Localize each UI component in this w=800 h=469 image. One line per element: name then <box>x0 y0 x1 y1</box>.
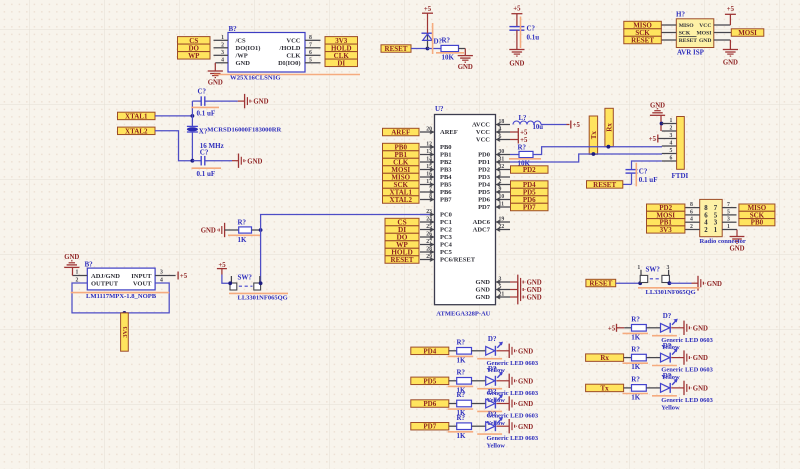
value 10u <box>533 124 544 131</box>
svg-text:32: 32 <box>499 164 505 170</box>
svg-text:ATMEGA328P-AU: ATMEGA328P-AU <box>436 310 490 317</box>
mcu pin 8 PB7 <box>420 194 452 204</box>
flash pin 3 /WP <box>214 50 229 56</box>
svg-text:VCC: VCC <box>699 23 711 29</box>
junction regulator output node <box>123 311 127 315</box>
svg-text:1K: 1K <box>631 394 641 402</box>
label Generic LED 0603 <box>661 337 713 344</box>
power +5 at mcu VCC pin6 <box>510 136 528 145</box>
port SCK (radio) <box>739 211 775 219</box>
svg-text:R?: R? <box>457 414 466 422</box>
power +5 above capacitor C? <box>511 6 522 14</box>
svg-text:PD5: PD5 <box>423 377 436 385</box>
svg-text:XTAL2: XTAL2 <box>390 196 413 204</box>
svg-text:1: 1 <box>714 227 718 234</box>
svg-text:Tx: Tx <box>590 131 598 140</box>
power +5 at switch SW? <box>217 262 230 284</box>
svg-text:+5: +5 <box>513 6 521 13</box>
led D? generic 0603 <box>486 417 510 431</box>
wire MISO to H? <box>661 24 676 26</box>
svg-text:3: 3 <box>714 220 718 227</box>
svg-text:PD3: PD3 <box>478 174 491 181</box>
port HOLD (mcu) <box>385 248 419 257</box>
svg-text:H?: H? <box>676 11 685 19</box>
flash pin 8 VCC <box>305 35 321 41</box>
junction R? to switch net <box>259 228 263 232</box>
svg-text:5: 5 <box>727 209 730 215</box>
port Tx (led row) <box>586 384 624 392</box>
radio pin 7 <box>722 202 736 208</box>
junction switch right <box>259 281 263 285</box>
mcu pin 31 PD1 <box>478 156 510 166</box>
label Yellow <box>487 367 506 374</box>
svg-text:0.1 uF: 0.1 uF <box>197 109 216 117</box>
port RESET (isp) <box>624 36 662 44</box>
svg-text:D?: D? <box>663 342 672 350</box>
svg-text:8: 8 <box>309 35 312 41</box>
svg-text:PB6: PB6 <box>440 189 452 196</box>
svg-text:U?: U? <box>435 105 444 113</box>
svg-text:10K: 10K <box>442 54 455 62</box>
svg-text:PD7: PD7 <box>423 423 436 431</box>
wire GND from H? <box>714 40 731 50</box>
svg-text:D?: D? <box>488 388 497 396</box>
designator D? (led) <box>663 372 672 380</box>
svg-text:GND: GND <box>509 61 524 68</box>
svg-text:6: 6 <box>690 209 693 215</box>
svg-text:1: 1 <box>727 224 730 230</box>
svg-text:13: 13 <box>426 149 432 155</box>
port MISO (isp) <box>624 21 662 29</box>
mcu pin 26 PC3 <box>420 231 453 241</box>
connector H? AVR ISP body <box>676 19 714 48</box>
power +5 above AVR ISP <box>725 6 736 14</box>
port MISO (radio) <box>739 204 775 212</box>
ground right of top crystal cap <box>245 94 269 108</box>
wire Rx to resistor <box>624 357 632 359</box>
svg-text:2: 2 <box>690 224 693 230</box>
led D? generic 0603 <box>661 379 685 393</box>
svg-text:W25X16CLSNIG: W25X16CLSNIG <box>230 75 281 82</box>
designator D? (led) <box>663 342 672 350</box>
regulator B? designator <box>85 261 94 269</box>
led D? generic 0603 <box>661 348 685 362</box>
label Yellow <box>487 397 506 404</box>
svg-text:RESET: RESET <box>589 280 612 288</box>
svg-text:29: 29 <box>426 254 432 260</box>
svg-text:PD4: PD4 <box>478 182 491 189</box>
flash pin 5 DI <box>305 57 321 63</box>
resistor R? 10K series PD0 <box>510 151 533 157</box>
radio pin 4 <box>685 217 700 223</box>
flash pin 6 CLK <box>305 50 321 56</box>
connector FTDI body <box>677 117 685 170</box>
svg-text:PD6: PD6 <box>423 400 436 408</box>
svg-text:PB1: PB1 <box>440 152 452 159</box>
svg-text:VCC: VCC <box>476 129 490 136</box>
port XTAL1 (mcu) <box>383 188 420 196</box>
wire MOSI from H? <box>714 32 732 34</box>
resistor R? 1K (led) <box>632 325 661 332</box>
value 1K (led) <box>457 386 467 394</box>
svg-text:AREF: AREF <box>391 129 410 137</box>
orange marker at reset diode <box>432 23 434 54</box>
svg-text:+5: +5 <box>218 262 226 269</box>
svg-text:SW?: SW? <box>238 273 253 281</box>
svg-text:R?: R? <box>238 218 247 226</box>
svg-text:B?: B? <box>229 25 238 33</box>
flash pin 1 /CS <box>214 35 229 41</box>
svg-text:OUTPUT: OUTPUT <box>91 280 119 287</box>
svg-text:ADC6: ADC6 <box>473 219 491 226</box>
svg-text:Yellow: Yellow <box>487 443 506 450</box>
ground below AVR ISP <box>723 50 738 67</box>
port PD6 (mcu) <box>511 196 549 204</box>
power +5 at FTDI pin3 <box>649 135 658 144</box>
svg-text:2: 2 <box>704 227 708 234</box>
mcu part name ATMEGA328P-AU <box>436 310 490 317</box>
wire Tx to resistor <box>624 387 632 389</box>
port RESET (bottom) <box>586 279 616 287</box>
svg-text:GND: GND <box>729 245 744 252</box>
svg-text:FTDI: FTDI <box>672 172 689 180</box>
svg-text:+5: +5 <box>520 130 528 137</box>
svg-text:GND: GND <box>723 59 738 66</box>
mcu pin 7 PB6 <box>420 186 452 196</box>
junction crystal top node <box>191 114 195 118</box>
wire PD6 to resistor <box>449 403 457 405</box>
svg-text:C?: C? <box>200 149 209 157</box>
mcu pin 13 PB1 <box>420 149 452 159</box>
svg-text:12: 12 <box>426 141 432 147</box>
svg-text:MCRSD16000F183000RR: MCRSD16000F183000RR <box>207 127 281 134</box>
svg-text:6: 6 <box>670 155 673 161</box>
ground left of R? 1K <box>201 223 225 237</box>
flash part name W25X16CLSNIG <box>214 75 360 82</box>
port PD4 (led row) <box>411 347 449 355</box>
svg-text:PD2: PD2 <box>478 167 490 174</box>
designator C? top crystal cap <box>198 87 207 95</box>
mcu pin 20 AREF <box>420 126 458 136</box>
orange markers led row <box>623 363 677 365</box>
mcu pin 1 PD3 <box>478 171 510 181</box>
diode D? to +5 <box>422 13 433 48</box>
svg-text:10: 10 <box>499 194 505 200</box>
mcu pin 27 PC4 <box>420 239 453 249</box>
svg-text:Yellow: Yellow <box>661 404 680 411</box>
ground right of led <box>509 374 533 388</box>
flash pin 4 GND wire <box>215 57 228 71</box>
ground right of bottom crystal cap <box>239 154 263 168</box>
svg-text:PC1: PC1 <box>440 219 452 226</box>
svg-text:Rx: Rx <box>606 123 614 132</box>
resistor R? 1K (led) <box>457 400 486 407</box>
svg-text:9: 9 <box>499 186 502 192</box>
svg-text:/HOLD: /HOLD <box>279 45 301 52</box>
svg-text:VOUT: VOUT <box>133 280 152 287</box>
svg-text:GND: GND <box>527 280 542 287</box>
svg-text:0.1 uF: 0.1 uF <box>197 170 216 178</box>
designator D? (led) <box>488 335 497 343</box>
port XTAL1 (left) <box>118 112 156 120</box>
port RESET (mcu) <box>385 256 419 264</box>
svg-text:GND: GND <box>527 295 542 302</box>
svg-text:DI: DI <box>337 59 345 67</box>
svg-text:3: 3 <box>727 217 730 223</box>
svg-text:MOSI: MOSI <box>696 31 711 37</box>
designator R? (led) <box>631 376 640 384</box>
svg-text:1: 1 <box>637 265 640 271</box>
junction Rx on PD0 net <box>607 145 611 149</box>
svg-text:D?: D? <box>488 411 497 419</box>
regulator B? body <box>87 268 155 290</box>
svg-text:B?: B? <box>85 261 94 269</box>
svg-text:PD7: PD7 <box>478 204 491 211</box>
svg-text:GND: GND <box>650 102 665 109</box>
mcu pin 19 ADC6 <box>473 216 510 226</box>
svg-text:PD1: PD1 <box>478 159 490 166</box>
ground at mcu pin 21 <box>510 290 542 305</box>
svg-text:PC4: PC4 <box>440 242 453 249</box>
label AVR ISP <box>677 48 705 56</box>
svg-text:PD0: PD0 <box>478 152 490 159</box>
label Yellow <box>487 420 506 427</box>
svg-text:17: 17 <box>426 179 432 185</box>
orange marker at capacitor C? <box>520 17 522 49</box>
power +5 at mcu VCC pin4 <box>510 128 528 137</box>
svg-text:PC0: PC0 <box>440 212 452 219</box>
mcu pin 17 PB5 <box>420 179 452 189</box>
svg-text:PB4: PB4 <box>440 174 452 181</box>
ftdi pin 5 <box>662 148 677 154</box>
port PB0 (mcu) <box>383 143 420 151</box>
junction crystal bottom node <box>191 159 195 163</box>
mcu pin 11 PD7 <box>478 201 510 211</box>
designator R? (led) <box>457 414 466 422</box>
designator R? (pc0) <box>238 218 247 226</box>
svg-text:7: 7 <box>429 186 432 192</box>
svg-text:GND: GND <box>518 348 533 355</box>
svg-text:WP: WP <box>188 52 200 60</box>
port PD2 (mcu) <box>511 166 549 174</box>
svg-text:+5: +5 <box>649 136 657 143</box>
svg-text:1K: 1K <box>457 432 467 440</box>
mcu pin 12 PB0 <box>420 141 452 151</box>
regulator pin 1 ADJ/GND <box>73 267 88 275</box>
designator R? (reset resistor) <box>442 37 451 45</box>
wire RESET to switch <box>616 282 641 284</box>
value 1K (pc0) <box>228 235 261 244</box>
wire RESET to H? <box>661 39 676 41</box>
regulator pin 3 INPUT to +5 <box>155 269 176 275</box>
led D? generic 0603 <box>486 342 510 356</box>
svg-text:20: 20 <box>426 126 432 132</box>
value 0.1 uF (top) <box>191 107 219 117</box>
switch SW? designator <box>238 273 253 281</box>
power +5 above reset diode <box>422 6 433 13</box>
svg-text:5: 5 <box>499 284 502 290</box>
mcu pin 3 GND <box>476 276 510 286</box>
orange markers led row <box>448 409 502 411</box>
radio pin 6 <box>685 209 700 215</box>
label Yellow <box>661 404 680 411</box>
ground symbol below flash <box>208 71 223 87</box>
label Generic LED 0603 <box>487 413 539 420</box>
svg-text:PD6: PD6 <box>478 197 491 204</box>
svg-text:Generic LED 0603: Generic LED 0603 <box>487 435 539 442</box>
svg-text:MISO: MISO <box>679 23 695 29</box>
port PD5 (led row) <box>411 377 449 385</box>
svg-text:R?: R? <box>457 391 466 399</box>
svg-text:25: 25 <box>426 224 432 230</box>
radio pin 3 <box>722 217 736 223</box>
designator R? (led) <box>631 345 640 353</box>
svg-text:1K: 1K <box>457 356 467 364</box>
svg-text:GND: GND <box>527 287 542 294</box>
svg-text:CLK: CLK <box>286 53 300 60</box>
svg-text:4: 4 <box>670 140 673 146</box>
label Yellow <box>487 443 506 450</box>
svg-text:GND: GND <box>693 355 708 362</box>
designator R? (series) <box>518 143 527 151</box>
mcu pin 29 PC6/RESET <box>420 254 476 264</box>
ftdi pin 3 <box>658 133 677 139</box>
port AREF <box>383 128 420 136</box>
mcu pin 6 VCC <box>476 134 510 144</box>
resistor R? 1K (pc0) <box>225 227 261 233</box>
svg-text:5: 5 <box>670 148 673 154</box>
svg-text:GND: GND <box>476 294 491 301</box>
svg-text:GND: GND <box>693 386 708 393</box>
junction reset switch left <box>638 281 642 285</box>
regulator part name LM1117MPX-1.8_NOPB <box>71 293 170 300</box>
svg-text:R?: R? <box>631 376 640 384</box>
mcu pin 32 PD2 <box>478 164 510 174</box>
power +5 after inductor <box>571 121 581 130</box>
mcu pin 16 PB4 <box>420 171 452 181</box>
svg-text:DI(IO0): DI(IO0) <box>278 60 300 67</box>
port XTAL2 (mcu) <box>383 196 420 204</box>
designator C? 0.1u labels <box>527 25 540 42</box>
svg-text:4: 4 <box>221 57 224 63</box>
svg-text:C?: C? <box>527 25 536 33</box>
designator X? <box>199 127 208 135</box>
svg-text:ADC7: ADC7 <box>473 227 491 234</box>
mcu pin 9 PD5 <box>478 186 510 196</box>
svg-text:8: 8 <box>690 202 693 208</box>
svg-text:+5: +5 <box>727 6 735 13</box>
svg-text:RESET: RESET <box>385 45 408 53</box>
ground right of led <box>509 419 533 433</box>
flash memory B? designator <box>229 25 238 33</box>
svg-text:XTAL2: XTAL2 <box>125 127 148 135</box>
switch SW? body <box>230 276 261 290</box>
svg-text:3: 3 <box>670 133 673 139</box>
svg-text:1: 1 <box>499 171 502 177</box>
radio pin 1 <box>722 224 737 230</box>
svg-text:4: 4 <box>704 220 708 227</box>
mcu pin 15 PB3 <box>420 164 452 174</box>
wire VCC to +5 <box>714 14 731 25</box>
value 0.1 uF (dtr cap) <box>639 176 658 184</box>
mcu pin 10 PD6 <box>478 194 510 204</box>
wire SCK to H? <box>661 32 676 34</box>
svg-text:GND: GND <box>518 401 533 408</box>
svg-text:RESET: RESET <box>631 37 654 45</box>
resistor R? 1K (led) <box>457 378 486 385</box>
svg-text:PC3: PC3 <box>440 234 453 241</box>
svg-text:7: 7 <box>727 202 730 208</box>
capacitor C? 0.1u <box>509 14 524 50</box>
led D? generic 0603 <box>661 319 685 333</box>
ground above FTDI <box>650 102 665 131</box>
led D? generic 0603 <box>486 394 510 408</box>
svg-text:PC5: PC5 <box>440 249 453 256</box>
value 1K (led) <box>457 356 467 364</box>
value 1K (led) <box>457 432 467 440</box>
svg-text:18: 18 <box>499 119 505 125</box>
switch SW? (reset) designator <box>646 265 661 273</box>
svg-text:31: 31 <box>499 156 505 162</box>
port PB1 (mcu) <box>383 151 420 159</box>
svg-text:3V3: 3V3 <box>660 226 673 234</box>
svg-text:6: 6 <box>309 50 312 56</box>
svg-text:2: 2 <box>670 125 673 131</box>
wire switch net to mcu PC0 <box>261 215 430 284</box>
ground at radio pin1 <box>729 230 744 253</box>
svg-text:14: 14 <box>426 156 432 162</box>
ground right of led <box>509 344 533 358</box>
svg-text:L?: L? <box>519 115 527 122</box>
designator L? <box>519 115 527 122</box>
svg-text:16: 16 <box>426 171 432 177</box>
svg-text:22: 22 <box>499 224 505 230</box>
switch SW? (reset) body <box>640 270 669 283</box>
port 3V3 (radio) <box>647 226 685 234</box>
junction FTDI pin1 gnd <box>660 122 664 126</box>
ftdi pin 1 <box>662 118 677 124</box>
svg-text:4: 4 <box>499 126 502 132</box>
designator R? (led) <box>457 391 466 399</box>
wire XTAL2 to bottom node <box>155 131 192 161</box>
svg-text:6: 6 <box>499 134 502 140</box>
wire XTAL1 to node <box>155 115 192 117</box>
port MOSI (mcu) <box>383 166 420 174</box>
junction switch left <box>228 281 232 285</box>
svg-text:28: 28 <box>426 246 432 252</box>
ground right of led <box>684 381 708 395</box>
svg-text:3: 3 <box>499 276 502 282</box>
svg-text:1: 1 <box>76 269 79 275</box>
svg-text:GND: GND <box>236 60 251 67</box>
svg-text:PD2: PD2 <box>523 166 536 174</box>
svg-text:GND: GND <box>201 228 216 235</box>
designator D? (led) <box>488 388 497 396</box>
svg-text:2: 2 <box>499 179 502 185</box>
mcu pin 5 GND <box>476 284 510 294</box>
port PB1 (radio) <box>647 219 685 227</box>
svg-text:GND: GND <box>518 424 533 431</box>
mcu pin 30 PD0 <box>478 149 510 159</box>
ground above regulator <box>64 254 79 267</box>
value 10K <box>436 53 464 62</box>
svg-text:RESET: RESET <box>679 38 698 44</box>
svg-text:0.1 uF: 0.1 uF <box>639 176 658 184</box>
svg-text:+5: +5 <box>608 326 616 333</box>
label Generic LED 0603 <box>487 390 539 397</box>
svg-text:Rx: Rx <box>600 354 609 362</box>
flash pin 7 /HOLD <box>305 42 321 48</box>
